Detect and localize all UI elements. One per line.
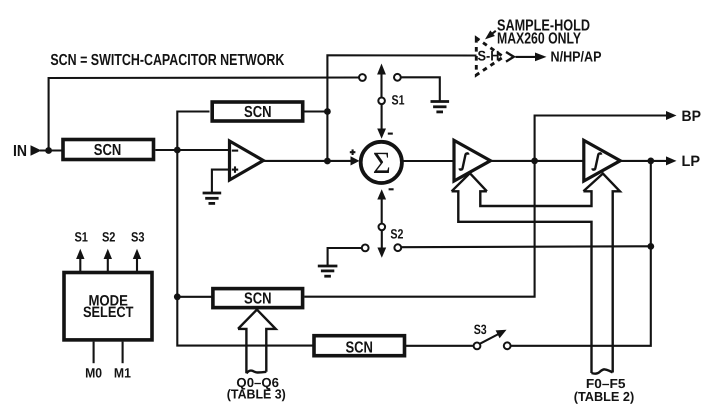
mode select output arrow S3: [133, 249, 141, 271]
bus arrow Q0-Q6 into SCN3: [238, 310, 276, 374]
switch S2 upper arrow into summing junction bottom: [377, 189, 386, 223]
wire S2 right contact to LP feedback line: [401, 245, 651, 248]
svg-text:MAX260 ONLY: MAX260 ONLY: [497, 30, 581, 47]
wire integrator1 output to integrator2 input: [491, 160, 584, 162]
svg-text:SCN: SCN: [345, 339, 373, 356]
switch S2 lower arrow: [377, 230, 386, 258]
switch S1 left contact: [359, 74, 366, 81]
ground at S1: [431, 102, 450, 112]
svg-text:SCN: SCN: [244, 104, 272, 121]
ground at S2: [318, 266, 338, 276]
SCN network box 2 (feedforward SCN): [212, 102, 303, 121]
net LP output: [620, 153, 700, 170]
junction dot integrator1 output node: [531, 158, 538, 165]
svg-text:S3: S3: [131, 230, 145, 245]
mode select block: [64, 273, 152, 340]
wire S2 left contact to ground: [328, 248, 362, 266]
svg-text:S1: S1: [74, 230, 88, 245]
junction dot op-amp output node: [324, 158, 331, 165]
wire BP feedback through SCN3: [304, 161, 534, 297]
integrator U2: [454, 140, 491, 181]
sample-hold output chevron: [506, 52, 514, 62]
svg-text:Σ: Σ: [373, 145, 391, 180]
mode select output arrow S1: [76, 249, 84, 271]
svg-text:M1: M1: [114, 365, 131, 380]
integrator U3: [584, 140, 621, 181]
switch S3 right contact: [504, 342, 511, 349]
switch S1 right contact: [394, 74, 401, 81]
junction dot SCN3 input node: [174, 293, 181, 300]
svg-text:S1: S1: [392, 92, 405, 107]
wire IN node riser to switch S1 left contact: [49, 78, 360, 151]
svg-text:SCN: SCN: [94, 142, 122, 159]
label minus at summing top input: [388, 133, 393, 135]
svg-text:SCN: SCN: [244, 291, 272, 308]
svg-text:(TABLE 2): (TABLE 2): [574, 389, 635, 404]
svg-text:LP: LP: [682, 153, 701, 170]
svg-text:S3: S3: [474, 322, 487, 337]
bus F0-F5 hollow arrows into integrators: [452, 173, 620, 373]
svg-text:N/HP/AP: N/HP/AP: [551, 49, 602, 65]
wire op-amp noninverting input to ground: [212, 170, 230, 193]
note SAMPLE-HOLD MAX260 ONLY with pointer arrow: [485, 18, 590, 48]
wire op-amp output to summing junction: [263, 156, 359, 165]
wire feed bus from SCN2 input down to SCN4 input: [177, 112, 314, 346]
junction dot LP output node: [647, 158, 654, 165]
switch S1 lower arrow into summing junction: [377, 104, 386, 139]
net BP output: [535, 108, 701, 161]
wire riser from op-amp output node up and right to sample-hold: [327, 55, 476, 161]
svg-text:BP: BP: [682, 108, 702, 125]
svg-text:(TABLE 3): (TABLE 3): [227, 386, 286, 401]
junction dot SCN1 output node: [174, 147, 181, 154]
wire SCN1 output to op-amp inverting input: [155, 149, 229, 151]
svg-text:S-H: S-H: [478, 48, 500, 64]
sample-hold block S-H (dashed, MAX260 only): [476, 38, 503, 75]
op-amp U1: [230, 141, 264, 180]
svg-text:M0: M0: [85, 365, 102, 380]
wire summing junction to integrator 1: [403, 160, 455, 162]
wire SCN3 input: [177, 296, 213, 298]
svg-text:IN: IN: [13, 143, 27, 160]
switch S1 contact on riser: [378, 98, 385, 105]
switch S2 left contact: [362, 245, 369, 252]
switch S3 blade with arrow: [480, 330, 507, 344]
wire SCN2 output to summing node riser: [304, 110, 327, 112]
SCN network box 4 (LP feedback SCN): [314, 336, 405, 357]
label minus at summing bottom input: [389, 188, 394, 190]
wire S1 right contact to ground: [401, 77, 440, 101]
ground under op-amp: [203, 193, 222, 203]
pin M0 stub: [93, 342, 95, 364]
wire IN node to SCN1 input: [40, 149, 63, 151]
pin M1 stub: [122, 342, 124, 364]
node IN: [13, 143, 42, 160]
junction dot SCN2 output on riser: [324, 108, 331, 115]
svg-text:SCN = SWITCH-CAPACITOR NETWORK: SCN = SWITCH-CAPACITOR NETWORK: [50, 52, 284, 69]
mode select output arrow S2: [104, 249, 112, 271]
junction dot S2 wire at LP feedback: [647, 243, 654, 250]
wire LP feedback down to switch S3: [511, 161, 651, 346]
SCN network box 3 (BP feedback SCN): [213, 289, 303, 308]
switch S2 contact on riser: [379, 224, 386, 231]
SCN network box 1 (input SCN): [63, 140, 154, 160]
switch S3 left contact: [474, 343, 481, 350]
label + polarity at summing input: [350, 149, 356, 155]
summing junction sigma: [361, 142, 402, 183]
switch S1 upper arrow toward top wire: [377, 64, 386, 98]
wire SCN4 output to switch S3: [405, 345, 474, 347]
junction dot at IN node: [45, 147, 52, 154]
switch S2 right contact: [394, 244, 401, 251]
wire sample-hold output to N/HP/AP: [516, 53, 547, 62]
svg-text:S2: S2: [102, 230, 116, 245]
svg-text:S2: S2: [390, 226, 403, 241]
svg-text:SELECT: SELECT: [83, 304, 134, 321]
